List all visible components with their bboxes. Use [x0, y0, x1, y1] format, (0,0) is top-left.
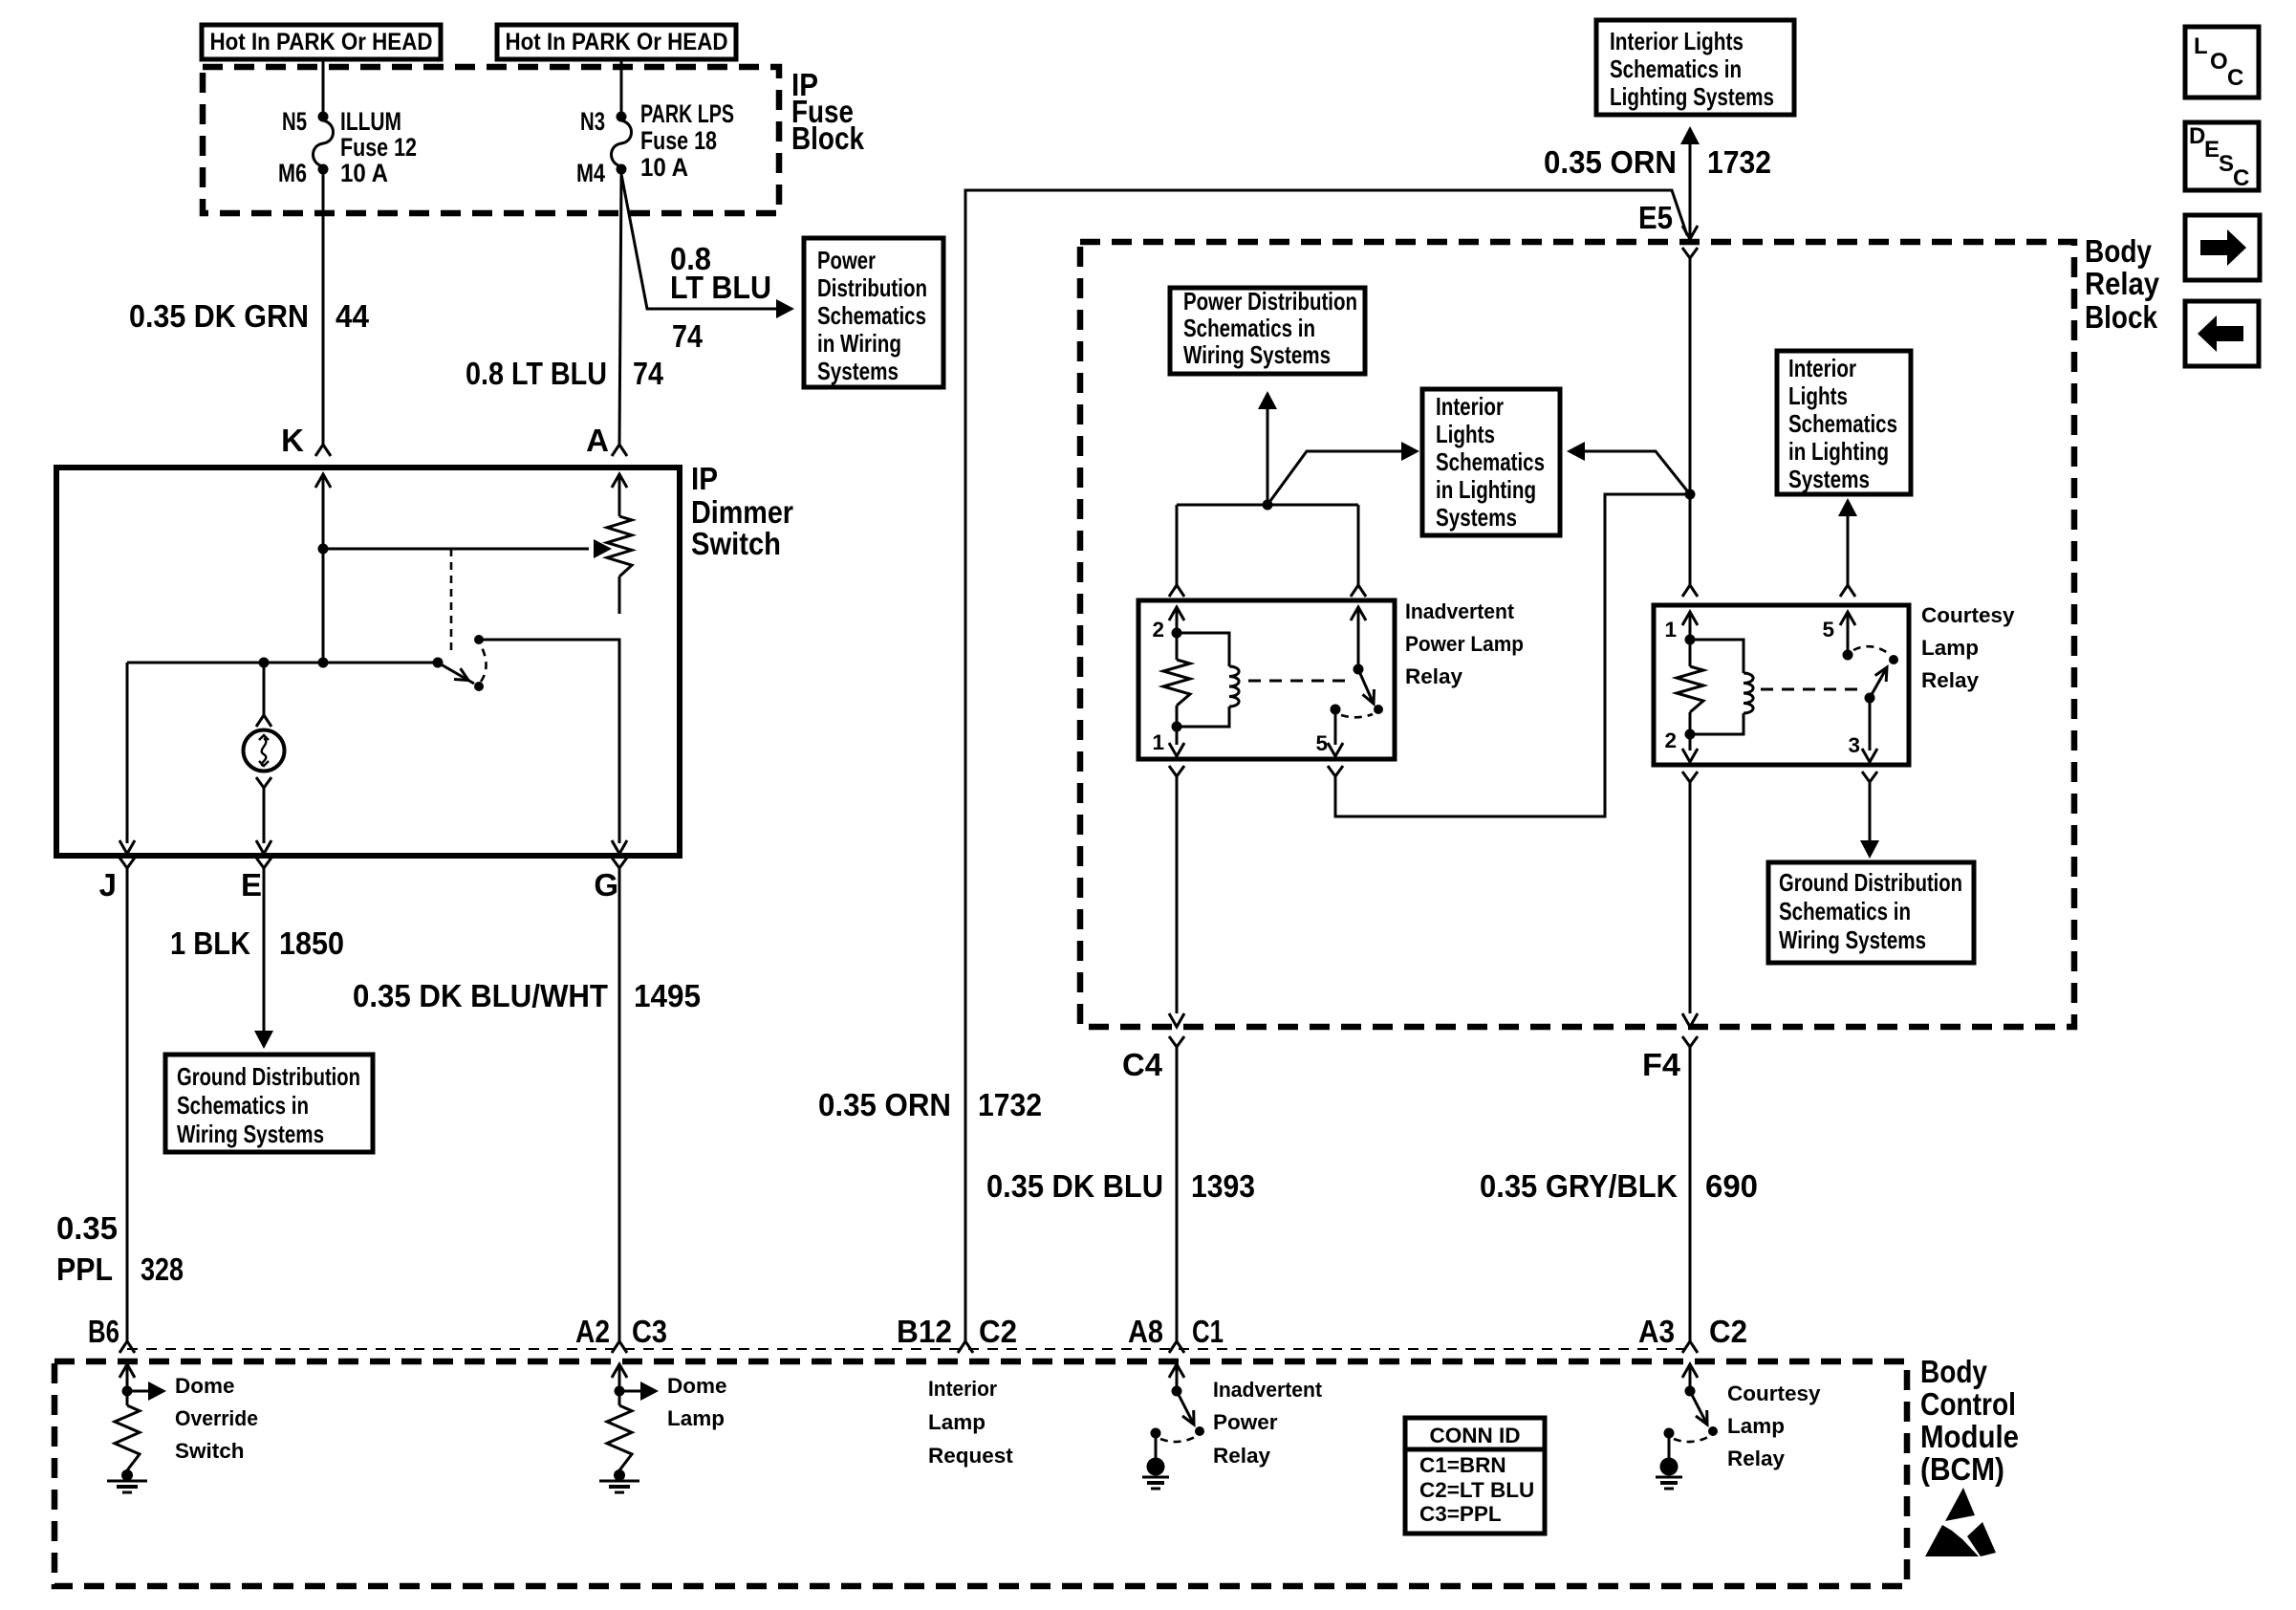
svg-text:44: 44 [336, 298, 370, 334]
svg-text:Lamp: Lamp [928, 1410, 986, 1434]
switch courtesy lamp relay (BCM) [1682, 1364, 1718, 1436]
svg-text:A2: A2 [575, 1314, 610, 1349]
wire 1 BLK 1850 (E to ground) [170, 868, 344, 1049]
svg-text:5: 5 [1315, 731, 1328, 755]
icon box forward arrow [2185, 215, 2260, 280]
svg-text:Courtesy: Courtesy [1921, 603, 2015, 627]
svg-text:in Lighting: in Lighting [1436, 475, 1536, 504]
svg-text:C3=PPL: C3=PPL [1419, 1502, 1502, 1526]
wire inadvertent pin 1 to C4 crossing [1169, 776, 1184, 1027]
connector A3 C2 forks [1638, 1314, 1747, 1353]
svg-text:J: J [99, 867, 117, 903]
label IP Fuse Block [791, 67, 865, 156]
svg-text:E5: E5 [1638, 200, 1673, 235]
connector B12 C2 forks [897, 1314, 1017, 1353]
resistor dome override switch [115, 1391, 140, 1474]
svg-text:A: A [586, 423, 609, 458]
svg-text:Interior: Interior [1788, 354, 1856, 382]
ground dome lamp [599, 1469, 639, 1492]
inductor inadvertent relay coil [1177, 633, 1239, 727]
svg-text:CONN ID: CONN ID [1430, 1424, 1521, 1447]
wire 0.35 DK BLU/WHT 1495 (G to BCM A2) [353, 868, 701, 1341]
svg-text:0.35 ORN: 0.35 ORN [1544, 144, 1677, 180]
svg-text:Inadvertent: Inadvertent [1213, 1378, 1322, 1402]
label Body Relay Block [2085, 233, 2160, 335]
svg-text:Body: Body [2085, 233, 2153, 269]
svg-text:Ground Distribution: Ground Distribution [177, 1062, 360, 1091]
svg-text:Control: Control [1920, 1386, 2016, 1422]
wire courtesy pin 5 to interior lights [1838, 498, 1857, 597]
wire junction to interior lights (left) [1267, 442, 1419, 505]
switch dome override input [119, 1364, 166, 1401]
svg-text:L: L [2194, 33, 2208, 59]
svg-text:Schematics in: Schematics in [177, 1091, 309, 1120]
svg-text:10 A: 10 A [640, 153, 688, 182]
pin 1 inadvertent relay [1152, 722, 1184, 757]
relay box Inadvertent Power Lamp Relay [1138, 599, 1524, 759]
wire feed into fuse 18 [620, 58, 623, 112]
BCM connector row dashed line [127, 1348, 1690, 1350]
connector fork below pin 1 [1169, 766, 1184, 776]
svg-text:D: D [2189, 123, 2205, 149]
svg-text:Fuse 18: Fuse 18 [640, 126, 717, 155]
resistor rheostat (panel dimming) [607, 516, 632, 614]
svg-text:5: 5 [1822, 618, 1834, 642]
svg-text:690: 690 [1705, 1168, 1758, 1204]
svg-text:Fuse 12: Fuse 12 [340, 133, 417, 162]
wire A input inside dimmer switch [612, 474, 627, 516]
wire E5 feed inside relay block [1685, 258, 1696, 585]
svg-text:Wiring Systems: Wiring Systems [1779, 925, 1926, 954]
svg-text:Power Lamp: Power Lamp [1405, 632, 1524, 656]
svg-text:Schematics: Schematics [1788, 409, 1897, 438]
svg-text:Lights: Lights [1788, 381, 1848, 410]
label Dome Lamp [667, 1374, 727, 1430]
svg-text:Dome: Dome [667, 1374, 727, 1398]
svg-text:C2=LT BLU: C2=LT BLU [1419, 1478, 1534, 1502]
label Interior Lamp Request [928, 1377, 1013, 1468]
svg-text:M6: M6 [278, 159, 307, 187]
svg-text:74: 74 [672, 318, 704, 354]
table CONN ID [1405, 1418, 1545, 1534]
svg-text:Relay: Relay [1213, 1444, 1271, 1468]
svg-text:1: 1 [1152, 730, 1164, 754]
inductor courtesy relay coil [1690, 640, 1753, 734]
svg-text:Lamp: Lamp [1921, 636, 1979, 660]
svg-text:Wiring Systems: Wiring Systems [177, 1120, 324, 1148]
node E branch junction [259, 658, 270, 668]
pin 1 courtesy relay [1664, 612, 1698, 645]
reference box Ground Distribution Schematics in Wiring Systems (left) [165, 1055, 373, 1152]
connector fork relay pin 3 [1351, 585, 1366, 597]
svg-text:1: 1 [1664, 618, 1677, 642]
svg-text:PARK LPS: PARK LPS [640, 99, 734, 128]
svg-text:C1: C1 [1192, 1314, 1224, 1349]
pin 2 courtesy relay [1664, 729, 1698, 762]
wire J branch arrow [119, 840, 135, 854]
wire switch contact to G [479, 640, 627, 854]
connector fork below courtesy pin 2 [1682, 772, 1698, 782]
svg-text:F4: F4 [1642, 1047, 1681, 1082]
wire 0.35 ORN 1732 (to interior lights schematics) [1544, 126, 1771, 239]
label IP Dimmer Switch [691, 461, 793, 561]
svg-text:1495: 1495 [634, 978, 701, 1013]
svg-text:N3: N3 [580, 107, 605, 136]
svg-text:0.35: 0.35 [56, 1210, 118, 1246]
mechanical link inadvertent relay [1248, 680, 1346, 683]
reference box Interior Lights Schematics in Lighting Systems (right) [1777, 351, 1911, 494]
wire pin 5 to E5 junction [1335, 494, 1690, 816]
icon box LOC [2185, 27, 2259, 98]
svg-text:Hot In PARK Or HEAD: Hot In PARK Or HEAD [210, 29, 433, 55]
svg-text:C: C [2233, 165, 2249, 191]
svg-text:1732: 1732 [978, 1087, 1042, 1122]
svg-text:A3: A3 [1638, 1314, 1675, 1349]
svg-text:Block: Block [791, 120, 865, 156]
svg-text:1393: 1393 [1191, 1168, 1255, 1204]
wire feed into fuse 12 [322, 58, 325, 112]
svg-text:0.35 DK BLU: 0.35 DK BLU [986, 1168, 1163, 1204]
resistor courtesy relay coil suppressor [1677, 640, 1703, 734]
svg-text:Schematics in: Schematics in [1610, 54, 1742, 83]
reference box Ground Distribution Schematics in Wiring Systems (right) [1768, 862, 1974, 963]
svg-text:0.35 GRY/BLK: 0.35 GRY/BLK [1480, 1168, 1678, 1204]
pin 2 inadvertent relay [1152, 607, 1184, 642]
fuse Fuse 18 PARK LPS 10A [576, 99, 734, 187]
svg-text:Ground Distribution: Ground Distribution [1779, 868, 1962, 897]
connector fork below pin 5 [1328, 766, 1343, 776]
ground dome override switch [107, 1469, 147, 1492]
svg-text:3: 3 [1848, 733, 1860, 757]
svg-text:ILLUM: ILLUM [340, 107, 401, 136]
Body Relay Block dashed outline [1080, 242, 2074, 1027]
svg-text:Dimmer: Dimmer [691, 494, 793, 530]
svg-text:328: 328 [141, 1251, 184, 1287]
Body Control Module dashed outline [54, 1361, 1907, 1586]
svg-text:C4: C4 [1122, 1047, 1163, 1082]
svg-text:Systems: Systems [1436, 503, 1517, 532]
resistor inadvertent relay coil suppressor [1163, 633, 1190, 727]
svg-text:M4: M4 [576, 159, 605, 187]
wire courtesy pin 3 to ground distribution [1860, 782, 1879, 859]
connector K fork [281, 423, 331, 458]
svg-text:B12: B12 [897, 1314, 952, 1349]
svg-text:C3: C3 [632, 1314, 667, 1349]
svg-text:Power Distribution: Power Distribution [1183, 287, 1357, 315]
connector A8 C1 forks [1128, 1314, 1224, 1353]
reference box Power Distribution Schematics in Wiring Systems (relay block) [1170, 287, 1365, 374]
wire 0.35 ORN 1732 (interior lamp request B12) [818, 190, 1687, 1341]
svg-text:Lamp: Lamp [1727, 1414, 1785, 1438]
svg-text:Schematics: Schematics [817, 301, 926, 330]
wire lamp to E terminal [256, 777, 271, 854]
svg-text:C2: C2 [979, 1314, 1017, 1349]
svg-text:1 BLK: 1 BLK [170, 925, 250, 961]
svg-text:(BCM): (BCM) [1920, 1451, 2004, 1487]
connector fork relay pin 2 [1169, 585, 1184, 597]
mechanical link courtesy relay [1761, 688, 1862, 691]
svg-text:Interior: Interior [928, 1377, 997, 1401]
svg-text:O: O [2210, 49, 2228, 75]
svg-text:C2: C2 [1709, 1314, 1747, 1349]
connector J fork [99, 858, 135, 903]
svg-text:Lights: Lights [1436, 420, 1495, 448]
icon box back arrow [2185, 301, 2259, 366]
label Inadvertent Power Relay [1213, 1378, 1322, 1468]
svg-text:Wiring Systems: Wiring Systems [1183, 340, 1331, 369]
connector C4 fork [1122, 1036, 1184, 1082]
svg-text:Power: Power [817, 246, 876, 274]
IP Dimmer Switch box [56, 468, 680, 856]
switch courtesy relay armature [1853, 646, 1898, 703]
wire 0.8 LT BLU 74 (fuse 18 to dimmer A) [466, 174, 664, 445]
pin 3 courtesy relay [1848, 698, 1877, 762]
reference box Interior Lights Schematics in Lighting Systems (top) [1596, 20, 1794, 115]
svg-text:E: E [241, 867, 262, 903]
label box "Hot In PARK Or HEAD" (fuse 12 feed) [202, 25, 441, 59]
wire junction E5 to interior lights (right) [1567, 442, 1690, 494]
svg-text:0.8 LT BLU: 0.8 LT BLU [466, 356, 607, 391]
connector G fork [594, 858, 627, 903]
svg-text:Body: Body [1920, 1354, 1988, 1389]
connector B6 fork [88, 1314, 135, 1353]
svg-text:Hot In PARK Or HEAD: Hot In PARK Or HEAD [506, 29, 728, 55]
svg-text:B6: B6 [88, 1314, 119, 1349]
svg-text:Override: Override [175, 1406, 258, 1430]
svg-text:Module: Module [1920, 1419, 2019, 1454]
svg-text:Relay: Relay [1405, 664, 1463, 688]
svg-text:Relay: Relay [1727, 1447, 1786, 1470]
connector fork courtesy pin 1 [1682, 585, 1698, 597]
wire 0.35 GRY/BLK 690 (F4 to BCM A3) [1480, 1047, 1758, 1341]
svg-text:E: E [2204, 137, 2220, 163]
svg-text:Lighting Systems: Lighting Systems [1610, 82, 1774, 111]
svg-text:Distribution: Distribution [817, 273, 927, 302]
svg-text:G: G [594, 867, 618, 903]
svg-text:Courtesy: Courtesy [1727, 1382, 1821, 1405]
svg-text:Request: Request [928, 1444, 1013, 1468]
svg-text:Schematics in: Schematics in [1779, 897, 1911, 925]
label Courtesy Lamp Relay (BCM) [1727, 1382, 1821, 1470]
connector A2 C3 forks [575, 1314, 667, 1353]
reference box Power Distribution Schematics in Wiring Systems (top) [804, 238, 943, 387]
wire K input inside dimmer switch [315, 474, 331, 663]
svg-text:Systems: Systems [1788, 465, 1870, 493]
svg-text:in Wiring: in Wiring [817, 329, 901, 358]
svg-text:1732: 1732 [1707, 144, 1771, 180]
wire relay coil feed bus [1177, 391, 1358, 585]
svg-text:LT BLU: LT BLU [670, 270, 771, 305]
connector E5 [1638, 200, 1698, 258]
svg-text:0.35 DK GRN: 0.35 DK GRN [129, 298, 309, 334]
label Dome Override Switch [175, 1374, 258, 1463]
wire 0.35 PPL 328 (J to BCM B6) [56, 868, 184, 1341]
wire E branch to lamp [256, 663, 271, 727]
connector E fork [241, 858, 271, 903]
wire wiper arm to rheostat [318, 539, 613, 558]
wire 0.8 LT BLU 74 branch to power distribution [621, 174, 794, 354]
svg-text:C1=BRN: C1=BRN [1419, 1453, 1506, 1477]
switch dome lamp input [612, 1364, 659, 1401]
svg-text:Switch: Switch [175, 1439, 245, 1463]
wire courtesy pin 2 to F4 crossing [1682, 782, 1698, 1027]
svg-text:Dome: Dome [175, 1374, 235, 1398]
svg-text:Inadvertent: Inadvertent [1405, 599, 1514, 623]
connector F4 fork [1642, 1036, 1698, 1082]
svg-text:Interior Lights: Interior Lights [1610, 27, 1744, 55]
relay box Courtesy Lamp Relay [1654, 603, 2015, 765]
svg-text:10 A: 10 A [340, 159, 388, 187]
svg-text:S: S [2219, 151, 2234, 177]
IP Fuse Block dashed outline [203, 67, 779, 213]
svg-text:Interior: Interior [1436, 392, 1504, 421]
switch inadvertent power relay (BCM) [1169, 1364, 1204, 1436]
svg-text:Relay: Relay [1921, 668, 1980, 692]
connector A fork [586, 423, 627, 458]
svg-text:2: 2 [1152, 618, 1164, 642]
svg-text:74: 74 [633, 356, 664, 391]
svg-text:N5: N5 [282, 107, 307, 136]
ESD static sensitive symbol [1925, 1488, 1996, 1556]
svg-text:K: K [281, 423, 304, 458]
connector fork below courtesy pin 3 [1862, 772, 1877, 782]
svg-text:Relay: Relay [2085, 266, 2160, 301]
reference box Interior Lights Schematics in Lighting Systems (middle) [1422, 389, 1560, 535]
svg-text:Schematics in: Schematics in [1183, 314, 1315, 342]
icon box DESC [2185, 122, 2259, 191]
ground contact courtesy lamp relay [1656, 1428, 1708, 1490]
pin 5 courtesy relay [1822, 612, 1855, 661]
svg-text:IP: IP [691, 461, 718, 496]
label box "Hot In PARK Or HEAD" (fuse 18 feed) [497, 25, 736, 59]
wire 0.35 DK GRN 44 (fuse 12 to dimmer K) [129, 174, 370, 445]
svg-text:0.35 ORN: 0.35 ORN [818, 1087, 951, 1122]
svg-text:1850: 1850 [279, 925, 344, 961]
svg-text:Lamp: Lamp [667, 1406, 725, 1430]
wire 0.35 DK BLU 1393 (C4 to BCM A8) [986, 1047, 1255, 1341]
svg-text:Systems: Systems [817, 357, 899, 385]
svg-text:in Lighting: in Lighting [1788, 437, 1889, 466]
ground contact inadvertent power relay [1142, 1428, 1195, 1490]
svg-text:Block: Block [2085, 299, 2158, 335]
switch inadvertent relay armature [1331, 669, 1384, 717]
svg-text:2: 2 [1664, 729, 1677, 752]
svg-text:PPL: PPL [56, 1251, 113, 1287]
fuse Fuse 12 ILLUM 10A [278, 107, 417, 187]
svg-text:0.35 DK BLU/WHT: 0.35 DK BLU/WHT [353, 978, 608, 1013]
label Body Control Module (BCM) [1920, 1354, 2019, 1487]
wire dimmer internal bus [127, 658, 438, 844]
svg-text:A8: A8 [1128, 1314, 1163, 1349]
resistor dome lamp [607, 1391, 632, 1474]
pin 5 inadvertent relay [1315, 709, 1343, 756]
switch dimmer dome-lamp contact [433, 549, 487, 691]
pin 3 inadvertent relay [1351, 607, 1366, 675]
svg-text:Power: Power [1213, 1410, 1278, 1434]
svg-text:Switch: Switch [691, 526, 781, 561]
svg-text:Schematics: Schematics [1436, 447, 1545, 476]
lamp dimmer illumination bulb [244, 730, 285, 772]
svg-text:C: C [2227, 65, 2243, 91]
